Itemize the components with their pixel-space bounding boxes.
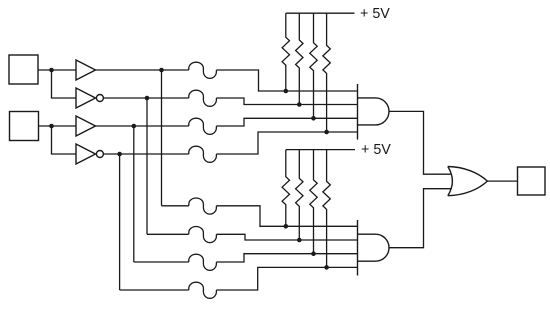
wire S1 to buffer U1 input (38, 69, 76, 71)
wire branch A down to inverter U2 input (52, 70, 77, 98)
fuse F2 (189, 90, 217, 106)
AND gate U6 input bar (357, 220, 359, 276)
wire row6 Abar-line to fuse F6 (147, 233, 189, 235)
input square S2 (input B) (10, 112, 39, 141)
OR gate U7 (448, 167, 488, 196)
fuse F7 (189, 254, 217, 270)
node R8/row8 junction dot (324, 265, 329, 270)
wire row4 Bbar-line from inverter U4 to fuse F4 (103, 153, 188, 155)
AND gate U6 body (358, 234, 390, 261)
buffer U3 (B) (76, 116, 96, 136)
node R2/row2 junction dot (297, 102, 302, 107)
wire row4 from fuse F4 to AND U5 input4 (216, 132, 357, 154)
wire branch B down to inverter U4 input (52, 126, 77, 154)
fuse F5 (189, 198, 217, 214)
resistor R3 (310, 13, 317, 118)
wire S2 to buffer U3 input (39, 125, 77, 127)
wire +5V bus (top) (286, 12, 355, 14)
wire vertical V1 (A) down to row5 (161, 70, 163, 206)
resistor R2 (296, 13, 303, 104)
input square S1 (input A) (9, 55, 38, 84)
wire vertical V3 (B) down to row7 (133, 126, 135, 262)
wire AND U6 output to OR U7 input2 (389, 189, 451, 248)
resistor R7 (310, 150, 317, 254)
buffer U1 (A) (76, 60, 96, 80)
node B-line junction dot (to vertical V3) (132, 124, 137, 129)
wire row2 from fuse F2 to AND U5 input2 (216, 98, 357, 105)
node B junction dot (49, 124, 54, 129)
label +5V (top) (360, 6, 390, 22)
wire row5 from fuse F5 to AND U6 input1 (216, 206, 357, 227)
svg-text:+ 5V: + 5V (360, 6, 390, 22)
AND gate U5 body (358, 98, 390, 125)
wire row5 A-line to fuse F5 (162, 205, 189, 207)
output square (518, 167, 546, 195)
wire AND U5 output to OR U7 input1 (389, 111, 451, 174)
resistor R4 (323, 13, 330, 132)
wire row7 from fuse F7 to AND U6 input3 (216, 254, 357, 262)
resistor R6 (296, 150, 303, 240)
node A-line junction dot (to vertical V1) (159, 68, 164, 73)
fuse F1 (189, 62, 217, 78)
svg-text:+ 5V: + 5V (361, 142, 391, 158)
wire row2 Abar-line from inverter U2 to fuse F2 (103, 97, 188, 99)
resistor R8 (323, 150, 330, 268)
fuse F4 (189, 146, 217, 162)
fuse F3 (189, 118, 217, 134)
wire vertical V4 (B-bar) down to row8 (119, 154, 121, 290)
wire row7 B-line to fuse F7 (134, 261, 189, 263)
node R4/row4 junction dot (324, 130, 329, 135)
node R1/row1 junction dot (284, 89, 289, 94)
wire row6 from fuse F6 to AND U6 input2 (216, 234, 357, 240)
wire OR U7 output to output square (487, 180, 517, 182)
fuse F6 (189, 227, 217, 243)
inverter U4 (B-bar) (76, 144, 103, 164)
node R5/row5 junction dot (284, 224, 289, 229)
resistor R5 (282, 150, 289, 227)
node R3/row3 junction dot (311, 116, 316, 121)
node R6/row6 junction dot (297, 238, 302, 243)
wire row3 B-line from buffer U3 to fuse F3 (96, 125, 189, 127)
AND gate U5 input bar (357, 84, 359, 140)
wire row1 A-line from buffer U1 to fuse F1 (96, 69, 189, 71)
node Abar-line junction dot (to vertical V2) (145, 96, 150, 101)
node A junction dot (49, 68, 54, 73)
node R7/row7 junction dot (311, 251, 316, 256)
fuse F8 (189, 282, 217, 298)
wire vertical V2 (A-bar) down to row6 (146, 98, 148, 234)
inverter U2 (A-bar) (76, 88, 103, 108)
wire row8 from fuse F8 to AND U6 input4 (216, 267, 357, 290)
node Bbar-line junction dot (to vertical V4) (117, 152, 122, 157)
wire +5V bus (bottom) (286, 149, 355, 151)
wire row3 from fuse F3 to AND U5 input3 (216, 118, 357, 126)
resistor R1 (282, 13, 289, 91)
wire row1 from fuse F1 to AND U5 input1 (216, 70, 357, 91)
wire row8 Bbar-line to fuse F8 (120, 289, 189, 291)
label +5V (bottom) (361, 142, 391, 158)
